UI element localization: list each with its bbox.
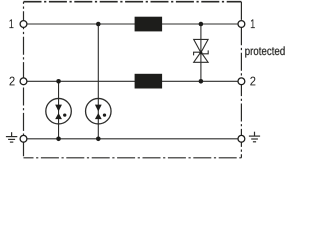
junction line2 / TVS branch <box>199 79 204 84</box>
terminal 1 unprotected (left, line 1) <box>20 21 27 28</box>
label terminal 1 left <box>9 19 13 28</box>
label terminal 1 right <box>251 19 255 28</box>
label terminal 2 right <box>250 77 255 86</box>
wire vertical: line1 junction down through line2 to GDT F2 <box>97 24 99 139</box>
wire vertical: line2 junction down to GDT F1 <box>58 81 60 139</box>
terminal 1 protected (right, line 1) <box>238 21 245 28</box>
wire vertical: TVS diode branch between line1 and line2 <box>200 24 202 81</box>
terminal 2 protected (right, line 2) <box>238 78 245 85</box>
label terminal 2 left <box>10 77 15 86</box>
resistor R1 (series decoupling, line 1) <box>135 17 163 32</box>
protected-zone dash-dot enclosure border: top edge <box>24 1 242 3</box>
terminal ground left <box>20 135 27 142</box>
protected-zone dash-dot enclosure border: right edge <box>240 2 242 158</box>
wire ground bus (bottom, y=138.8) <box>24 138 242 140</box>
junction ground bus / GDT F1 <box>56 137 61 142</box>
label protected side <box>245 46 284 57</box>
junction line1 / GDT F2 branch <box>96 22 101 27</box>
suppressor diode U1 (bidirectional TVS, two triangles tip to tip) <box>194 39 209 62</box>
gas discharge tube F1 (circle with facing arrows and gas dot) <box>46 98 72 124</box>
wire line 1 (top, y=24) <box>24 23 242 25</box>
wire line 2 (middle, y=81.3) <box>24 80 242 82</box>
ground symbol left <box>6 132 17 142</box>
junction line1 / TVS branch <box>199 22 204 27</box>
junction line2 / GDT F1 branch <box>56 79 61 84</box>
terminal ground right <box>238 135 245 142</box>
protected-zone dash-dot enclosure border: bottom edge <box>24 157 242 159</box>
resistor R2 (series decoupling, line 2) <box>135 74 163 89</box>
terminal 2 unprotected (left, line 2) <box>20 78 27 85</box>
junction ground bus / GDT F2 <box>96 137 101 142</box>
protected-zone dash-dot enclosure border: left edge <box>23 2 25 158</box>
gas discharge tube F2 (circle with facing arrows and gas dot) <box>86 98 112 124</box>
ground symbol right <box>249 132 260 142</box>
